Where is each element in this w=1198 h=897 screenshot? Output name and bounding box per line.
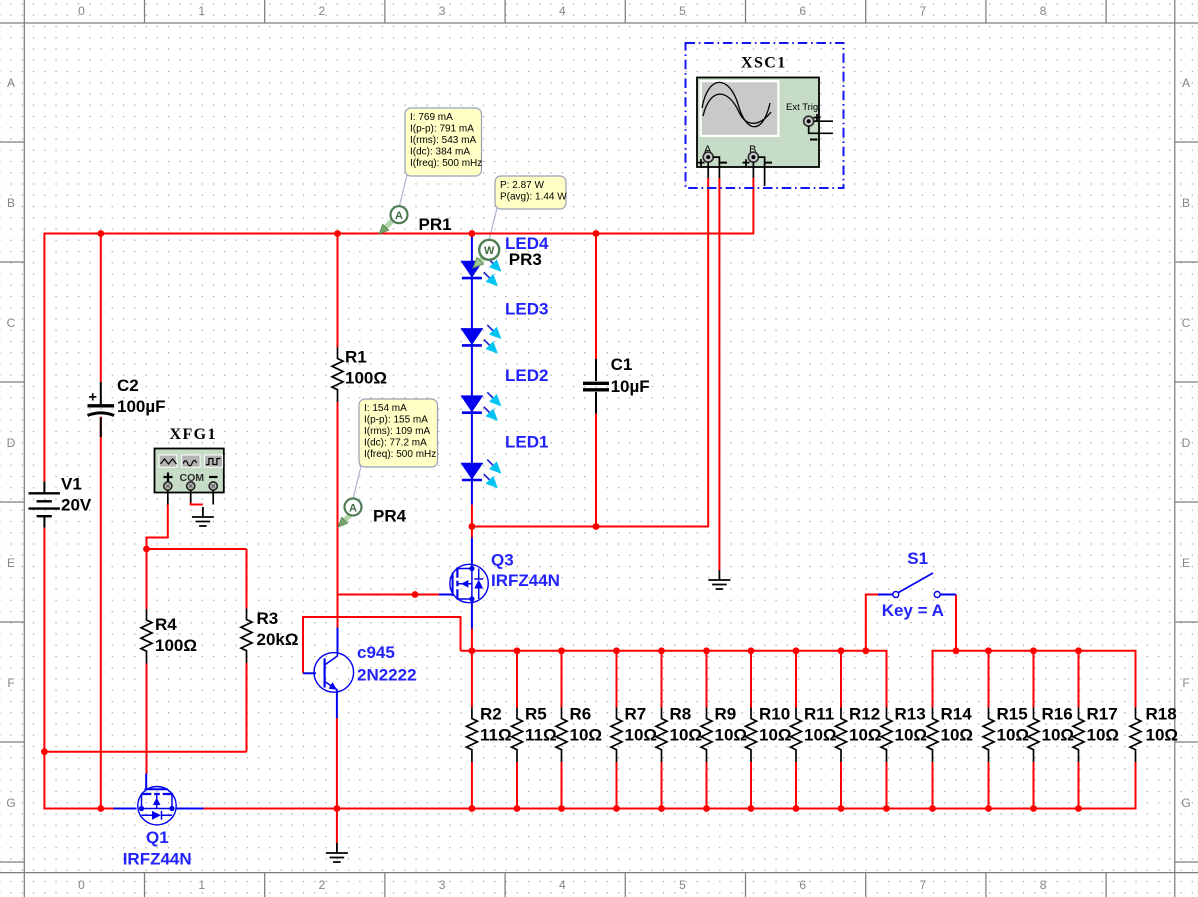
- wire R3 bottom horizontal: [44, 751, 246, 753]
- svg-text:I(p-p): 791 mA: I(p-p): 791 mA: [410, 123, 474, 134]
- svg-text:I(freq): 500 mHz: I(freq): 500 mHz: [410, 158, 482, 169]
- svg-text:10µF: 10µF: [611, 377, 650, 396]
- svg-text:0: 0: [78, 4, 85, 18]
- resistor R12: [836, 708, 847, 763]
- wire S1 left to bus: [866, 595, 878, 651]
- svg-text:10Ω: 10Ω: [1042, 726, 1075, 745]
- svg-text:5: 5: [679, 878, 686, 892]
- capacitor C1: [583, 359, 609, 414]
- wire R4 column upper: [146, 548, 148, 609]
- resistor R4: [141, 609, 152, 664]
- svg-text:10Ω: 10Ω: [670, 726, 703, 745]
- wire bottom bus: [204, 762, 1136, 809]
- probe PR3 circle: [479, 240, 499, 260]
- svg-text:PR3: PR3: [509, 250, 542, 269]
- svg-text:3: 3: [439, 878, 446, 892]
- svg-text:100µF: 100µF: [117, 397, 166, 416]
- svg-text:F: F: [7, 676, 14, 690]
- svg-text:7: 7: [920, 878, 927, 892]
- LED4: [461, 254, 505, 290]
- wire R5 column: [516, 651, 518, 809]
- resistor R16: [1028, 708, 1039, 763]
- junction dots mid bus: [469, 647, 1082, 654]
- wire S1 right to bus: [955, 595, 957, 651]
- svg-text:R13: R13: [895, 705, 926, 724]
- svg-text:11Ω: 11Ω: [525, 726, 557, 745]
- LED2: [461, 388, 505, 424]
- junction dots top bus: [97, 230, 599, 237]
- border row letters left: [6, 76, 15, 810]
- wire XFG1 COM jog: [191, 503, 203, 505]
- svg-text:10Ω: 10Ω: [997, 726, 1030, 745]
- svg-text:W: W: [484, 245, 495, 257]
- wire S1 left pin: [878, 594, 893, 596]
- svg-text:D: D: [1182, 436, 1191, 450]
- svg-text:LED2: LED2: [505, 366, 548, 385]
- wire Q1 top pin blue: [145, 774, 147, 790]
- wire node to R3 top: [147, 548, 247, 550]
- wire C1 top: [595, 234, 597, 360]
- svg-text:11Ω: 11Ω: [480, 726, 512, 745]
- XSC1 terminal A: [703, 152, 713, 162]
- resistor R18: [1130, 708, 1141, 763]
- resistor R9: [701, 708, 712, 763]
- wire Q3 source to bus: [471, 629, 473, 651]
- wire R16 column: [1033, 651, 1035, 809]
- resistor R3: [241, 609, 252, 664]
- svg-text:R10: R10: [759, 705, 790, 724]
- wire R4 column lower: [146, 664, 148, 774]
- svg-text:B: B: [1182, 196, 1190, 210]
- wire Q1 right pin blue: [176, 808, 204, 810]
- svg-text:D: D: [7, 436, 16, 450]
- svg-text:10Ω: 10Ω: [849, 726, 882, 745]
- svg-text:4: 4: [559, 4, 566, 18]
- wire top bus: [44, 233, 754, 235]
- svg-text:R1: R1: [345, 348, 367, 367]
- junction dots LED bottom wire: [469, 523, 600, 530]
- svg-text:PR4: PR4: [373, 507, 407, 526]
- ground below c945: [326, 843, 348, 862]
- wire R9 column: [706, 651, 708, 809]
- XFG1 terminal minus: [209, 482, 217, 490]
- svg-text:20kΩ: 20kΩ: [257, 630, 299, 649]
- svg-text:R11: R11: [804, 705, 834, 724]
- svg-text:10Ω: 10Ω: [1087, 726, 1120, 745]
- svg-text:A: A: [7, 76, 15, 90]
- resistor R17: [1073, 708, 1084, 763]
- probe note PR4 box: [359, 399, 438, 467]
- svg-text:R17: R17: [1087, 705, 1118, 724]
- svg-text:R3: R3: [257, 609, 279, 628]
- svg-text:P: 2.87 W: P: 2.87 W: [500, 180, 544, 191]
- svg-text:10Ω: 10Ω: [1146, 726, 1179, 745]
- svg-text:5: 5: [679, 4, 686, 18]
- svg-text:R15: R15: [997, 705, 1028, 724]
- svg-text:10Ω: 10Ω: [804, 726, 837, 745]
- probe PR1 arrow: [376, 217, 396, 237]
- probe note PR4 leader: [353, 466, 361, 499]
- svg-text:R18: R18: [1146, 705, 1177, 724]
- svg-text:R4: R4: [155, 615, 177, 634]
- resistor R2: [466, 708, 477, 763]
- svg-text:IRFZ44N: IRFZ44N: [491, 571, 560, 590]
- wire R11 column: [795, 651, 797, 809]
- wire R7 column: [616, 651, 618, 809]
- svg-text:10Ω: 10Ω: [941, 726, 974, 745]
- svg-text:IRFZ44N: IRFZ44N: [123, 850, 192, 869]
- svg-text:R9: R9: [715, 705, 737, 724]
- transistor c945 NPN: [314, 653, 354, 694]
- svg-text:8: 8: [1040, 4, 1047, 18]
- wire R15 column: [988, 651, 990, 809]
- wire S1 right pin: [940, 594, 956, 596]
- svg-text:PR1: PR1: [419, 215, 452, 234]
- svg-text:I(p-p): 155 mA: I(p-p): 155 mA: [364, 414, 428, 425]
- svg-text:8: 8: [1040, 878, 1047, 892]
- wire R14 column lower: [932, 762, 934, 809]
- svg-text:F: F: [1182, 676, 1189, 690]
- svg-text:R2: R2: [480, 705, 502, 724]
- svg-text:2: 2: [319, 878, 326, 892]
- svg-text:R16: R16: [1042, 705, 1073, 724]
- resistor R1: [332, 348, 343, 403]
- ground scope A-: [708, 570, 730, 589]
- svg-text:R8: R8: [670, 705, 692, 724]
- svg-text:B: B: [7, 196, 15, 210]
- border column numbers top: [78, 4, 1047, 18]
- switch S1: [893, 573, 940, 598]
- svg-text:Key = A: Key = A: [882, 601, 944, 620]
- XSC1 black pin stubs: [708, 121, 833, 186]
- svg-text:G: G: [6, 796, 15, 810]
- junction dots bottom bus: [334, 805, 1082, 812]
- junction dot C2 gate node: [97, 805, 104, 812]
- svg-text:20V: 20V: [61, 496, 92, 515]
- transistor Q3 MOSFET: [450, 564, 488, 602]
- wire C1 bottom: [595, 414, 597, 527]
- function generator XFG1: [155, 449, 224, 493]
- wire R1 column upper: [337, 234, 339, 348]
- wire c945 emitter pin: [336, 691, 338, 719]
- svg-text:2N2222: 2N2222: [357, 666, 417, 685]
- XSC1 terminal Ext Trig: [804, 116, 814, 126]
- svg-text:E: E: [1182, 556, 1190, 570]
- resistor R11: [791, 708, 802, 763]
- XSC1 terminal B: [748, 152, 758, 162]
- oscilloscope XSC1 body: [697, 78, 821, 168]
- resistor R5: [512, 708, 523, 763]
- wire LED chain blue: [471, 234, 473, 505]
- wire R17 column: [1078, 651, 1080, 809]
- svg-text:10Ω: 10Ω: [625, 726, 658, 745]
- wire R13 column lower: [886, 762, 888, 809]
- svg-text:G: G: [1181, 796, 1190, 810]
- probe note PR3 box: [495, 176, 567, 209]
- wire C2 top: [100, 234, 102, 383]
- wire c945 base pin: [303, 672, 316, 674]
- svg-text:Q3: Q3: [491, 551, 514, 570]
- wire scope B+ down: [752, 178, 754, 234]
- svg-text:0: 0: [78, 878, 85, 892]
- svg-text:A: A: [395, 210, 403, 222]
- wire mid bus segment 1: [461, 651, 887, 708]
- svg-text:XFG1: XFG1: [170, 426, 217, 443]
- svg-text:R5: R5: [525, 705, 547, 724]
- svg-text:Ext Trig: Ext Trig: [786, 102, 818, 113]
- svg-text:V1: V1: [61, 475, 82, 494]
- wire C2 bottom: [100, 417, 102, 809]
- wire Q3 source pin: [471, 601, 473, 629]
- svg-text:C1: C1: [611, 355, 633, 374]
- svg-text:I(rms): 109 mA: I(rms): 109 mA: [364, 426, 430, 437]
- wire c945 base net: [303, 617, 461, 673]
- wire Q1 gate net: [43, 808, 113, 810]
- svg-text:10Ω: 10Ω: [895, 726, 928, 745]
- svg-text:I(dc): 384 mA: I(dc): 384 mA: [410, 147, 470, 158]
- resistor R6: [556, 708, 567, 763]
- wire R3 column upper: [246, 549, 248, 609]
- wire R10 column: [750, 651, 752, 809]
- battery V1: [29, 482, 60, 528]
- svg-text:6: 6: [799, 878, 806, 892]
- LED3: [461, 321, 505, 357]
- svg-text:I(dc): 77.2 mA: I(dc): 77.2 mA: [364, 438, 427, 449]
- LED1: [461, 456, 505, 492]
- wire R8 column: [661, 651, 663, 809]
- wires blue pins: [114, 234, 957, 809]
- svg-text:1: 1: [198, 878, 205, 892]
- svg-text:2: 2: [319, 4, 326, 18]
- wire V1 top: [43, 233, 45, 482]
- svg-text:R7: R7: [625, 705, 647, 724]
- svg-text:10Ω: 10Ω: [570, 726, 603, 745]
- junction dot R4 top node: [143, 546, 150, 553]
- resistor R14: [927, 708, 938, 763]
- wire LED column red gap: [471, 505, 473, 538]
- svg-text:P(avg): 1.44 W: P(avg): 1.44 W: [500, 192, 567, 203]
- probe PR4 circle: [345, 499, 362, 516]
- wire R2 column: [471, 651, 473, 809]
- svg-text:3: 3: [439, 4, 446, 18]
- svg-text:6: 6: [799, 4, 806, 18]
- resistor R10: [746, 708, 757, 763]
- resistor R8: [656, 708, 667, 763]
- svg-text:R14: R14: [941, 705, 973, 724]
- svg-text:4: 4: [559, 878, 566, 892]
- svg-text:1: 1: [198, 4, 205, 18]
- wire scope A- to ground: [718, 178, 720, 570]
- svg-text:100Ω: 100Ω: [155, 636, 197, 655]
- wire mid bus segment 2: [933, 651, 1136, 708]
- svg-text:I(freq): 500 mHz: I(freq): 500 mHz: [364, 449, 436, 460]
- wire LED bottom to scope A+: [472, 178, 708, 527]
- svg-text:LED1: LED1: [505, 433, 548, 452]
- transistor Q1 MOSFET: [138, 787, 176, 825]
- resistor R7: [611, 708, 622, 763]
- junction dot V1 R3 node: [41, 748, 48, 755]
- wires red: [43, 178, 1135, 844]
- svg-text:C2: C2: [117, 376, 139, 395]
- svg-text:R12: R12: [849, 705, 880, 724]
- XFG1 terminal COM: [187, 482, 195, 490]
- wire c945 emitter to ground: [336, 718, 338, 844]
- probe note PR1 box: [405, 108, 482, 176]
- svg-text:I: 154 mA: I: 154 mA: [364, 403, 407, 414]
- svg-text:LED3: LED3: [505, 300, 548, 319]
- wire XFG1 plus to node: [147, 504, 168, 549]
- junction dot Q3 gate wire: [412, 591, 419, 598]
- wire V1 bottom: [43, 528, 45, 809]
- svg-text:c945: c945: [357, 643, 395, 662]
- XFG1 terminal +: [164, 482, 172, 490]
- svg-text:10Ω: 10Ω: [715, 726, 748, 745]
- svg-text:7: 7: [920, 4, 927, 18]
- capacitor C2: [88, 382, 115, 437]
- XFG1 pin stubs: [168, 490, 213, 505]
- svg-text:XSC1: XSC1: [741, 55, 787, 72]
- svg-text:S1: S1: [907, 549, 928, 568]
- svg-text:A: A: [1182, 76, 1190, 90]
- svg-text:C: C: [7, 316, 16, 330]
- wire c945 collector pin: [337, 628, 339, 654]
- oscilloscope XSC1 dashed box: [686, 43, 844, 188]
- ground near XFG1: [192, 507, 214, 526]
- wire R1 column lower: [337, 402, 339, 628]
- border row letters right: [1181, 76, 1190, 810]
- svg-text:I(rms): 543 mA: I(rms): 543 mA: [410, 135, 476, 146]
- svg-text:Q1: Q1: [146, 828, 169, 847]
- wire R12 column: [840, 651, 842, 809]
- probe PR3 arrow: [470, 251, 491, 272]
- probe note PR1 leader: [399, 175, 407, 208]
- svg-text:10Ω: 10Ω: [759, 726, 792, 745]
- wire Q1 gate pin blue: [114, 808, 137, 810]
- svg-text:C: C: [1182, 316, 1191, 330]
- wire R3 column lower: [246, 663, 248, 752]
- wire R6 column: [561, 651, 563, 809]
- border column numbers bottom: [78, 878, 1047, 892]
- svg-text:100Ω: 100Ω: [345, 369, 387, 388]
- svg-text:A: A: [349, 502, 357, 514]
- wire Q3 gate net: [338, 594, 440, 596]
- svg-text:E: E: [7, 556, 15, 570]
- wire Q3 gate pin: [439, 594, 453, 596]
- resistor R13: [881, 708, 892, 763]
- probe PR4 arrow: [335, 510, 355, 530]
- svg-text:I: 769 mA: I: 769 mA: [410, 112, 453, 123]
- resistor R15: [983, 708, 994, 763]
- svg-text:R6: R6: [570, 705, 592, 724]
- probe note PR3 leader: [489, 208, 497, 240]
- probe PR1 circle: [391, 206, 408, 223]
- wire Q3 drain pin: [471, 538, 473, 567]
